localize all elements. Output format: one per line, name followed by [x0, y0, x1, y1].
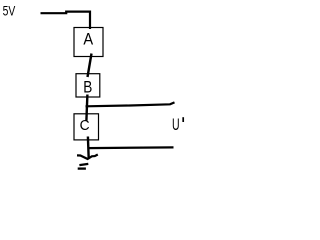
ground symbol stroke 2 (middle dash)	[79, 164, 88, 165]
output wire top (to U')	[86, 102, 175, 106]
ground symbol stroke 3 (bottom dash)	[78, 167, 86, 169]
ground symbol stroke 1 (top squiggle)	[77, 155, 98, 160]
box C	[74, 114, 99, 140]
svg-text:B: B	[83, 78, 92, 97]
svg-text:A: A	[83, 30, 93, 48]
box A	[74, 28, 103, 57]
wire from 5V supply to box A (top feed wire with jog)	[41, 12, 91, 29]
wire A to B	[88, 54, 92, 78]
svg-text:U: U	[172, 115, 180, 134]
box B	[76, 74, 100, 97]
svg-text:C: C	[80, 118, 90, 135]
wire B to C	[86, 95, 87, 121]
svg-text:5V: 5V	[3, 3, 16, 19]
output wire bottom (return to U')	[88, 146, 174, 149]
wire C to ground	[87, 137, 90, 159]
